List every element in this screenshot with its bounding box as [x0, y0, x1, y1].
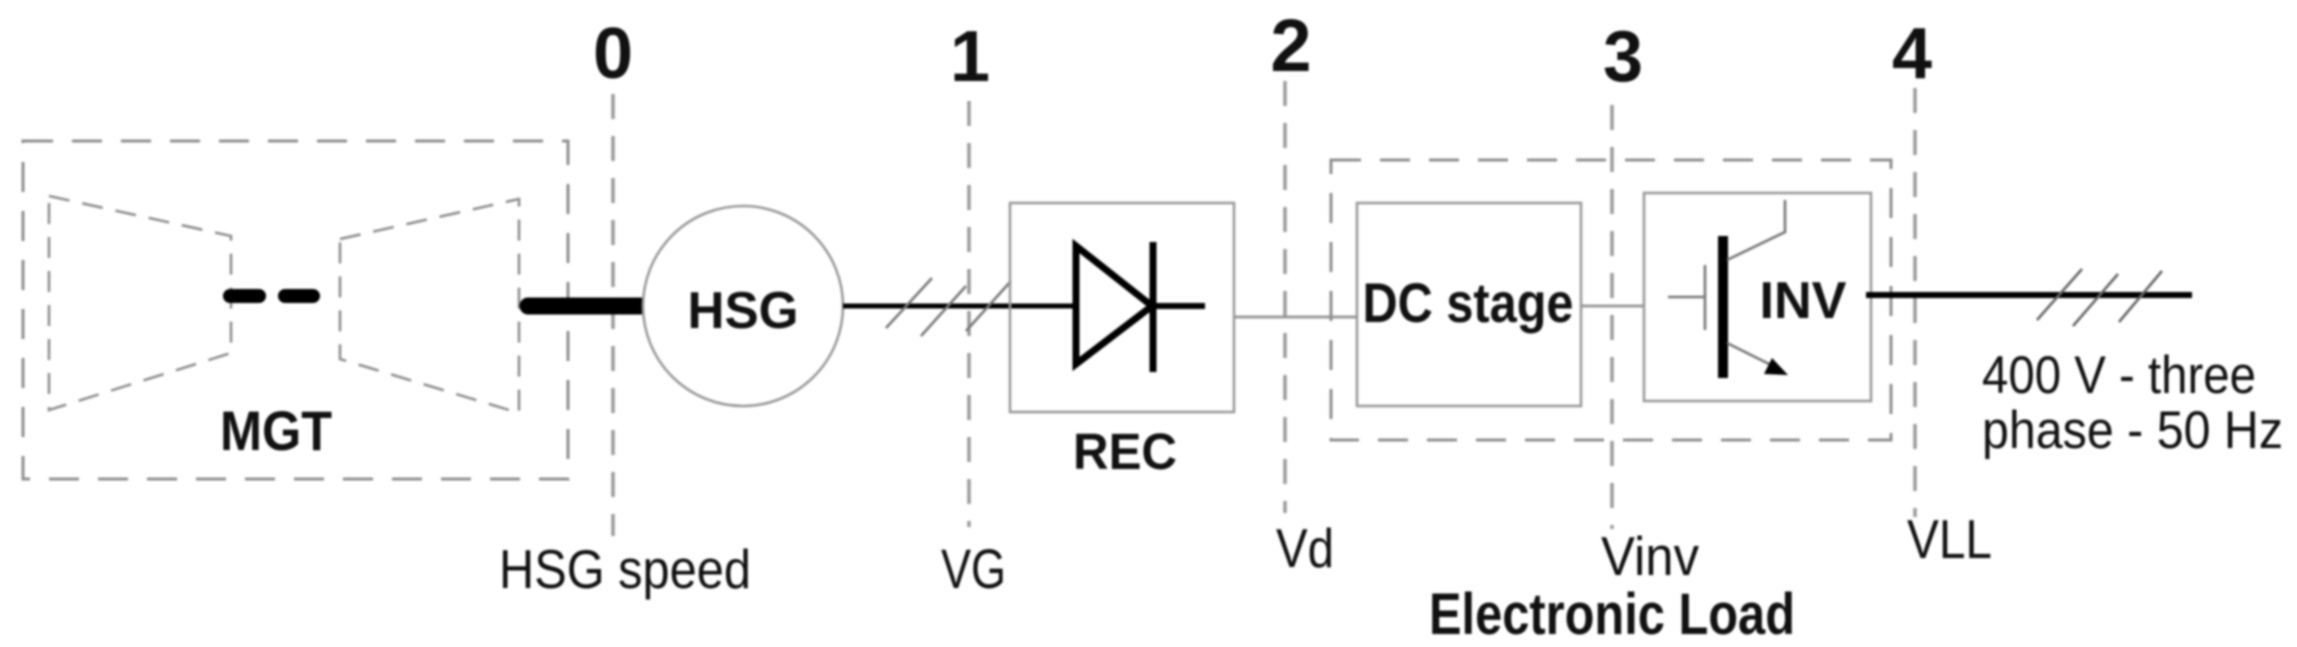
IGBT emitter arrowhead [1764, 358, 1788, 375]
DC stage box [1357, 203, 1581, 406]
svg-text:VLL: VLL [1907, 508, 1992, 570]
svg-text:HSG: HSG [688, 282, 799, 340]
IGBT body bar [1718, 236, 1728, 378]
wire DC stage to INV [1581, 305, 1644, 308]
svg-text:phase - 50 Hz: phase - 50 Hz [1982, 401, 2283, 460]
IGBT emitter lead [1727, 343, 1775, 367]
output slash 3 [2119, 271, 2162, 322]
svg-text:Electronic Load: Electronic Load [1429, 582, 1795, 647]
IGBT gate electrode [1704, 265, 1707, 330]
IGBT gate lead [1668, 296, 1704, 299]
svg-text:4: 4 [1892, 14, 1932, 94]
wire HSG to REC [843, 304, 1077, 309]
three-phase slash 3 [966, 281, 1011, 331]
svg-text:DC stage: DC stage [1363, 271, 1574, 334]
compressor trapezoid [49, 196, 231, 410]
node 0 dashed axis line [611, 94, 615, 536]
shaft coupling dash 2 [285, 289, 313, 303]
diode cathode lead [1153, 303, 1205, 309]
diode cathode bar [1150, 242, 1157, 372]
dc-link wire REC to DC stage [1234, 316, 1357, 319]
shaft coupling dash 1 [230, 289, 259, 303]
inverter box INV [1644, 193, 1871, 401]
svg-text:HSG speed: HSG speed [499, 538, 751, 600]
IGBT collector lead [1727, 200, 1785, 260]
rectifier box REC [1010, 203, 1234, 412]
svg-text:Vinv: Vinv [1601, 525, 1699, 587]
generator circle HSG [643, 206, 843, 406]
svg-text:REC: REC [1073, 423, 1177, 480]
node 4 dashed axis line [1913, 88, 1917, 517]
three-phase slash 1 [886, 278, 932, 328]
output wire [1866, 292, 2192, 298]
svg-text:2: 2 [1270, 4, 1311, 87]
output slash 2 [2073, 274, 2118, 326]
output slash 1 [2037, 269, 2082, 320]
shaft to generator (thick) [528, 298, 640, 315]
three-phase slash 2 [921, 286, 966, 336]
svg-text:400 V - three: 400 V - three [1982, 346, 2256, 405]
svg-text:MGT: MGT [220, 399, 332, 462]
svg-text:INV: INV [1760, 272, 1847, 330]
svg-text:Vd: Vd [1276, 517, 1334, 579]
turbine trapezoid [340, 199, 519, 413]
MGT dashed enclosure box [23, 141, 568, 479]
svg-text:3: 3 [1603, 17, 1643, 97]
node 3 dashed axis line [1610, 105, 1614, 529]
svg-text:0: 0 [593, 14, 633, 94]
node 2 dashed axis line [1283, 81, 1287, 513]
Electronic Load dashed enclosure [1331, 160, 1891, 440]
svg-text:VG: VG [941, 537, 1006, 600]
node 1 dashed axis line [967, 101, 971, 527]
diode triangle [1076, 246, 1152, 364]
svg-text:1: 1 [950, 17, 990, 97]
